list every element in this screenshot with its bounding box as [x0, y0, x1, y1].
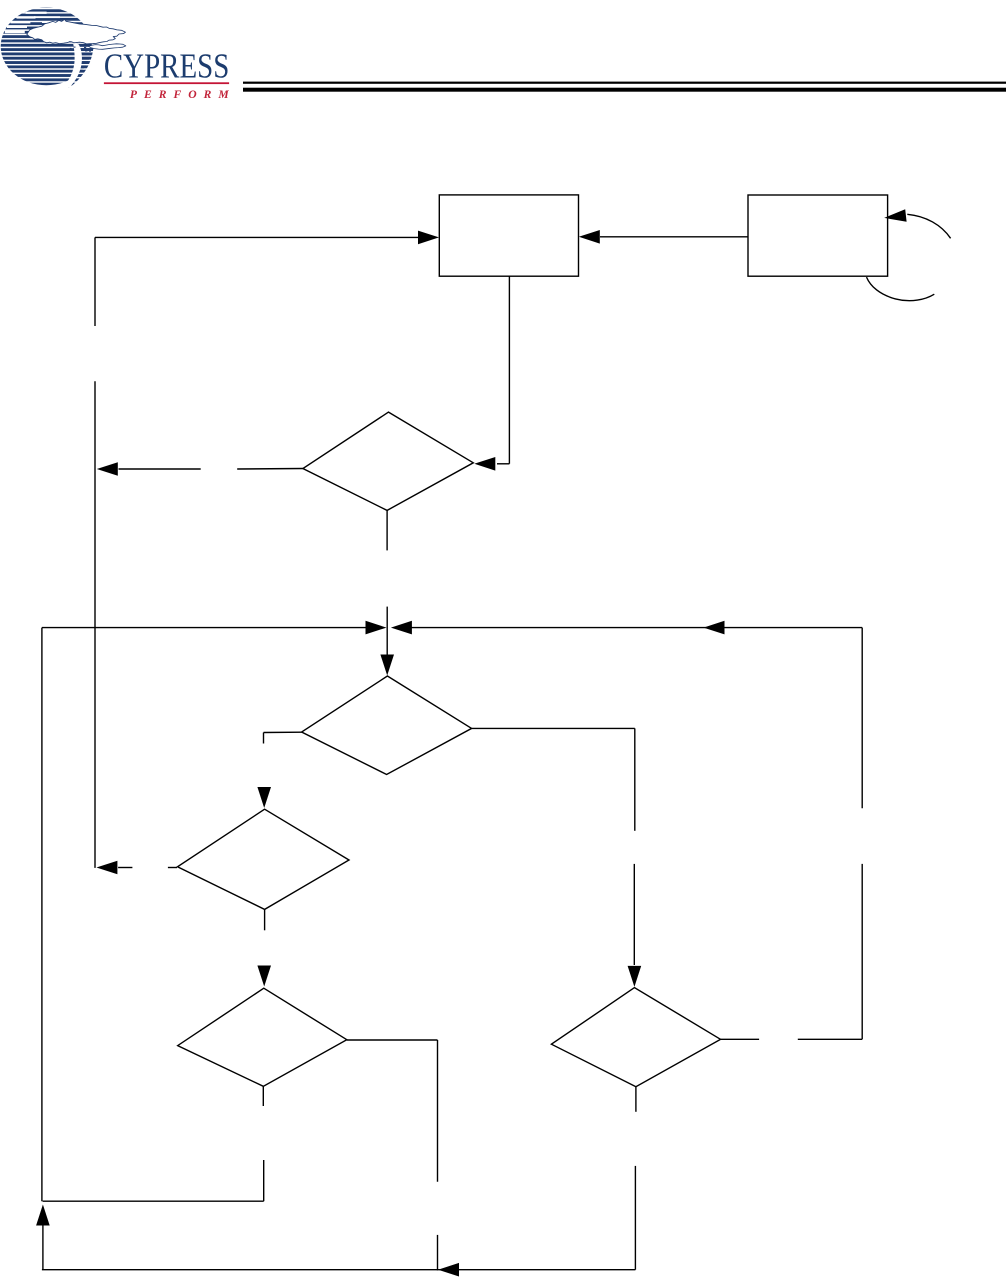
arrowhead into D5 top — [628, 966, 642, 987]
wire into D2 top — [386, 607, 388, 655]
wire B2 to B1 — [600, 236, 748, 238]
svg-text:PERFORM: PERFORM — [130, 88, 229, 101]
wire D3 left a — [168, 867, 177, 869]
wire junction left — [42, 627, 366, 629]
wire left vertical bottom — [94, 381, 96, 868]
wire right vertical lower — [861, 864, 863, 1039]
arrowhead loop into B2 — [884, 209, 906, 222]
arrowhead into D1 right — [474, 457, 495, 471]
arrowhead into D4 top — [257, 966, 271, 987]
wire bottom-left horizontal — [43, 1200, 264, 1202]
island chain — [89, 44, 126, 50]
arrowhead into D3 top — [257, 787, 271, 808]
wire D4 right horizontal — [347, 1039, 438, 1041]
wire D2 left down stub — [263, 733, 265, 744]
arrowhead D1 to left line — [97, 462, 118, 476]
wire D5 bottom lower — [634, 1166, 636, 1270]
map specks — [70, 45, 91, 52]
loop arc top — [907, 214, 950, 238]
svg-text:CYPRESS: CYPRESS — [104, 47, 229, 86]
arrowhead into B1 left — [418, 231, 439, 245]
process box B2 — [748, 195, 888, 276]
header thick rule — [243, 88, 1006, 92]
wire D4 bottom stub — [262, 1086, 264, 1106]
arrowhead junction right-pointing — [366, 621, 387, 635]
wire D5 right b — [798, 1038, 862, 1040]
arrowhead up at bottom-left — [36, 1205, 50, 1226]
wire D2 left horizontal — [264, 731, 302, 733]
decision diamond D2 — [302, 676, 472, 775]
wire D2 right vertical lower — [633, 864, 635, 965]
decision diamond D5 — [551, 988, 720, 1087]
arrowhead junction mid left-pointing — [704, 621, 725, 635]
red underline — [104, 82, 229, 84]
Cypress logo globe (striped) — [1, 8, 94, 88]
wire leftmost vertical — [41, 628, 43, 1202]
wire junction right — [411, 627, 862, 629]
wire bottom horizontal — [42, 1269, 636, 1271]
wire D5 bottom stub — [635, 1087, 637, 1112]
landmass — [27, 19, 126, 44]
wire left vertical top — [94, 237, 96, 326]
wire D4 right vertical lower — [437, 1235, 439, 1271]
decision diamond D3 — [178, 809, 350, 909]
wire D2 right vertical upper — [634, 728, 636, 830]
wire up-arrow stem — [42, 1225, 44, 1270]
wire B1 bottom stub — [508, 276, 510, 464]
globe tail crescent — [69, 44, 94, 88]
arrowhead into D2 top — [380, 655, 394, 676]
arrowhead into D3 exit left — [96, 861, 117, 875]
wire D1 left a — [237, 468, 303, 471]
arrowhead junction left-pointing — [391, 621, 412, 635]
wire into B1 from left — [95, 236, 418, 238]
wire D3 bottom stub — [264, 909, 266, 930]
arrowhead into B1 right — [579, 230, 600, 244]
loop arc bottom — [867, 277, 935, 301]
wire D4 bottom lower — [263, 1160, 265, 1201]
top-left white staircase — [5, 12, 60, 34]
header thin rule — [243, 82, 1006, 84]
wire D4 right vertical upper — [437, 1040, 439, 1182]
wire D1 bottom stub — [386, 510, 388, 550]
wire D2 right horizontal — [472, 727, 635, 729]
process box B1 — [439, 195, 578, 276]
decision diamond D4 — [178, 988, 347, 1086]
wire D5 right a — [721, 1038, 760, 1040]
wire D1 left b — [119, 468, 201, 470]
decision diamond D1 — [303, 412, 473, 510]
arrowhead on bottom line — [438, 1263, 459, 1277]
wire to D1 right — [497, 463, 509, 465]
white swoosh — [63, 43, 82, 87]
wire D3 left b — [118, 867, 132, 869]
wire right vertical upper — [861, 628, 863, 809]
